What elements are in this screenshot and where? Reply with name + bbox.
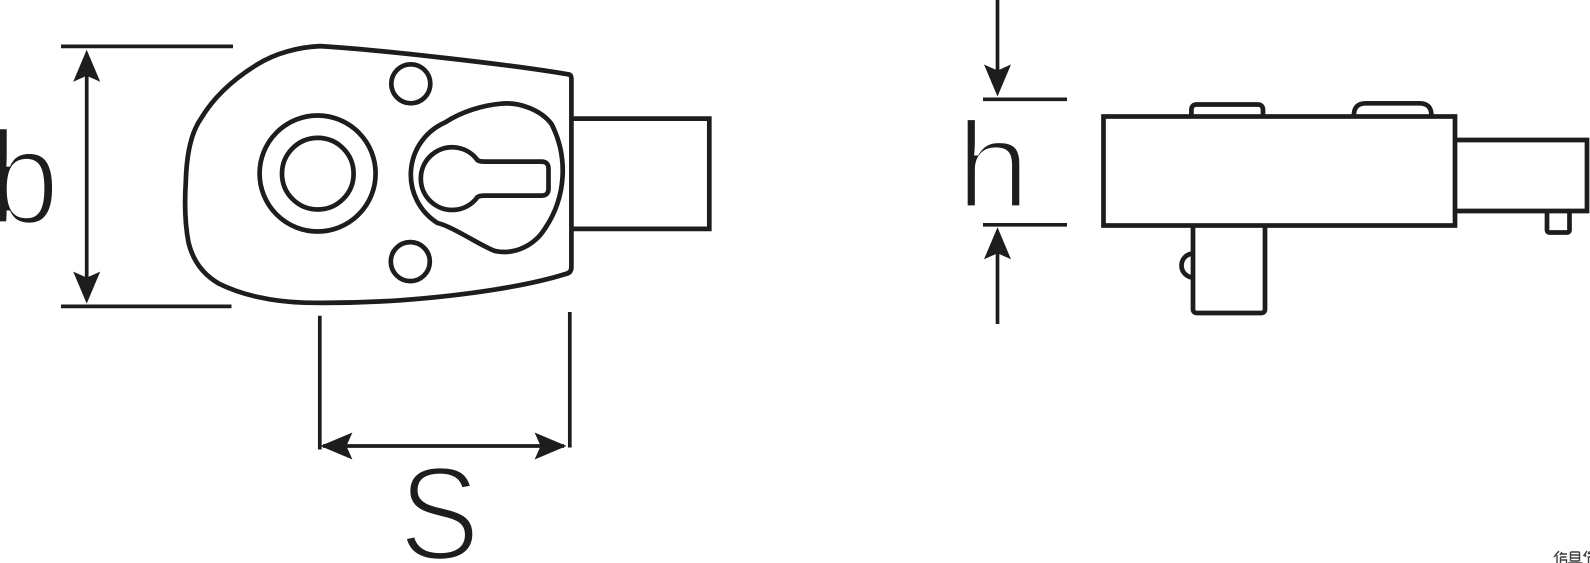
- head outline (ratchet head, top view): [185, 46, 571, 303]
- dimension b: vertical arrow line: [85, 54, 89, 299]
- drive ring inner circle: [282, 138, 354, 210]
- dimension S: horizontal arrow line: [323, 444, 564, 448]
- arrowhead h down: [984, 65, 1011, 97]
- arrowhead b down: [73, 272, 100, 304]
- side view: tab 1 on top: [1191, 105, 1263, 117]
- side view: tab 2 on top: [1354, 103, 1432, 116]
- dimension S: left extension line: [318, 316, 322, 450]
- dimension S: right extension line: [568, 312, 572, 448]
- side view: main body rectangle: [1104, 117, 1456, 226]
- release pocket (teardrop): [411, 103, 563, 252]
- arrowhead b up: [73, 50, 100, 82]
- arrowhead S right: [535, 433, 567, 460]
- pin hole bottom: [391, 242, 430, 281]
- keyhole (release button silhouette): [421, 147, 549, 210]
- pin hole top: [391, 64, 430, 103]
- side view: square drive (covers detent right part): [1193, 227, 1265, 313]
- svg-text:S: S: [399, 439, 480, 563]
- arrowhead S left: [320, 433, 352, 460]
- side view: small stop tab under right extension: [1547, 211, 1570, 233]
- dimension h: bottom vertical line: [996, 232, 1000, 324]
- svg-text:b: b: [0, 105, 59, 253]
- side view: right extension (drive head side): [1455, 140, 1587, 211]
- dimension h: top vertical line: [996, 0, 1000, 91]
- dimension b: bottom tick: [61, 305, 232, 309]
- dimension b: top tick: [61, 45, 233, 49]
- side view: detent ball: [1182, 254, 1206, 278]
- dimension h: bottom tick: [983, 223, 1067, 227]
- arrowhead h up: [984, 227, 1011, 259]
- drive ring outer circle: [260, 116, 376, 232]
- watermark 德具行: [1554, 551, 1590, 563]
- svg-text:h: h: [956, 97, 1030, 235]
- tang (square insert shank, top view): [571, 119, 709, 229]
- dimension h: top tick: [983, 97, 1067, 101]
